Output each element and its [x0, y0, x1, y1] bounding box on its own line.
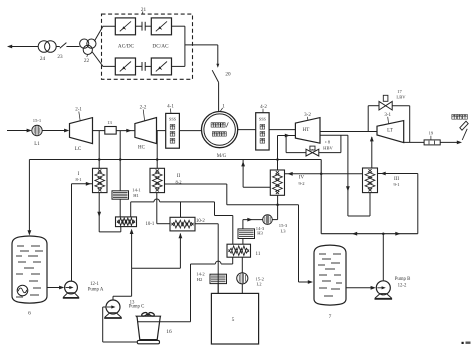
svg-text:M/G: M/G	[217, 154, 227, 159]
svg-text:20: 20	[225, 72, 231, 78]
svg-text:H2: H2	[197, 277, 203, 282]
svg-text:HT: HT	[303, 128, 310, 133]
svg-text:21: 21	[141, 7, 147, 13]
svg-text:• 8: • 8	[325, 140, 331, 145]
svg-text:H3: H3	[257, 231, 263, 236]
svg-text:9-2: 9-2	[298, 181, 305, 186]
svg-text:L3: L3	[280, 229, 286, 234]
svg-text:10-2: 10-2	[196, 219, 205, 224]
svg-text:SSS: SSS	[259, 117, 267, 122]
svg-text:SSS: SSS	[169, 117, 177, 122]
svg-text:12-1: 12-1	[90, 282, 99, 287]
svg-text:H1: H1	[133, 193, 139, 198]
svg-text:HBV: HBV	[323, 146, 333, 151]
svg-text:4-2: 4-2	[260, 105, 267, 110]
svg-text:4-1: 4-1	[167, 105, 174, 110]
svg-text:3-1: 3-1	[384, 113, 391, 118]
svg-text:L1: L1	[34, 142, 40, 147]
svg-text:7: 7	[329, 314, 332, 320]
svg-text:8-2: 8-2	[175, 179, 182, 184]
svg-text:2-1: 2-1	[75, 108, 82, 113]
svg-text:HC: HC	[138, 146, 146, 151]
svg-text:12-2: 12-2	[398, 284, 407, 289]
svg-text:2-2: 2-2	[140, 106, 147, 111]
svg-text:14-2: 14-2	[196, 272, 205, 277]
svg-text:DC/AC: DC/AC	[152, 43, 169, 49]
svg-text:II: II	[177, 174, 181, 179]
svg-text:IV: IV	[299, 175, 305, 180]
svg-text:L2: L2	[257, 282, 263, 287]
svg-text:AC/DC: AC/DC	[118, 43, 135, 49]
svg-text:10-1: 10-1	[146, 222, 155, 227]
svg-text:17: 17	[397, 89, 402, 94]
svg-text:24: 24	[40, 56, 46, 62]
svg-text:6: 6	[28, 311, 31, 317]
svg-text:LT: LT	[387, 129, 393, 134]
svg-text:15-1: 15-1	[33, 118, 42, 123]
svg-text:23: 23	[57, 54, 63, 60]
svg-text:Pump B: Pump B	[395, 277, 411, 282]
svg-text:Pump C: Pump C	[129, 305, 145, 310]
svg-text:14-1: 14-1	[132, 188, 141, 193]
svg-text:8-1: 8-1	[75, 177, 82, 182]
svg-text:3-2: 3-2	[304, 113, 311, 118]
svg-text:19: 19	[429, 131, 434, 136]
svg-text:11: 11	[256, 252, 261, 257]
svg-text:15-3: 15-3	[279, 223, 288, 228]
svg-text:16: 16	[166, 329, 172, 335]
svg-text:1: 1	[222, 104, 225, 110]
svg-text:5: 5	[232, 317, 235, 323]
svg-text:13: 13	[107, 120, 112, 125]
svg-text:Pump A: Pump A	[88, 287, 104, 292]
svg-text:9-1: 9-1	[393, 182, 400, 187]
svg-text:LC: LC	[75, 147, 82, 152]
svg-text:LBV: LBV	[396, 95, 406, 100]
svg-text:22: 22	[84, 58, 90, 64]
